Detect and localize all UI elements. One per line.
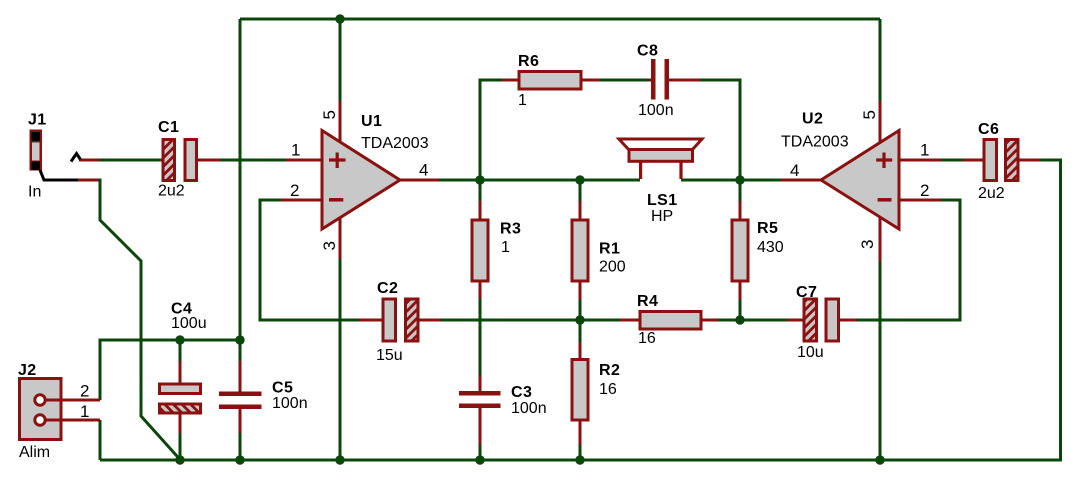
- wire red leads C5: [239, 361, 242, 433]
- speaker LS1: [619, 139, 702, 179]
- resistor R3: [472, 220, 488, 281]
- wire U1 pin5 drop green: [339, 19, 342, 101]
- svg-text:C3: C3: [511, 384, 532, 401]
- wire output rail left: [439, 179, 640, 182]
- wire ground rail: [100, 160, 1061, 460]
- svg-text:C5: C5: [272, 380, 293, 397]
- svg-text:C1: C1: [158, 119, 179, 136]
- svg-text:J2: J2: [18, 362, 37, 379]
- node junction ground C3: [475, 455, 484, 464]
- node junction output C8: [735, 175, 744, 184]
- wire red leads R3: [479, 201, 482, 299]
- wire C2 to R4 row: [441, 319, 620, 322]
- svg-text:3: 3: [858, 240, 877, 249]
- svg-text:TDA2003: TDA2003: [361, 135, 429, 152]
- wire red leads R4: [620, 319, 718, 322]
- svg-text:4: 4: [419, 161, 428, 180]
- wire red lead C1 left: [160, 159, 164, 162]
- svg-text:1: 1: [80, 402, 89, 421]
- node junction ground U2 pin3: [875, 455, 884, 464]
- wire top supply rail: [240, 18, 880, 21]
- svg-text:2u2: 2u2: [978, 185, 1005, 202]
- wire output rail right: [681, 179, 781, 182]
- wire R5 branch green: [739, 182, 742, 320]
- svg-text:100n: 100n: [511, 400, 547, 417]
- svg-text:200: 200: [599, 259, 626, 276]
- wire red leads C4: [179, 361, 182, 433]
- wire red U1 pin4 lead: [400, 179, 439, 182]
- wire C6 to U2 pin1 green: [941, 159, 963, 162]
- wire input ground path: [98, 180, 180, 460]
- svg-text:TDA2003: TDA2003: [781, 134, 849, 151]
- wire red leads R2: [579, 342, 582, 445]
- wire R2 branch green: [579, 320, 582, 460]
- node junction C5 rail: [235, 335, 244, 344]
- wire red pin lead J1 input: [79, 159, 99, 162]
- svg-text:1: 1: [518, 92, 527, 109]
- svg-text:16: 16: [599, 381, 617, 398]
- capacitor C4: [160, 384, 201, 413]
- svg-text:2: 2: [290, 181, 299, 200]
- wire red U1 pin5 lead: [339, 101, 342, 142]
- wire R4 to C7: [718, 319, 787, 322]
- node junction feedback R5: [735, 315, 744, 324]
- capacitor C2: [383, 299, 418, 341]
- wire red leads C6: [963, 159, 1040, 162]
- wire red lead J1 ground: [78, 179, 98, 182]
- svg-text:4: 4: [790, 161, 799, 180]
- resistor R4: [640, 312, 701, 330]
- node junction feedback R2: [575, 315, 584, 324]
- wire C1 to U1 pin1: [219, 159, 286, 162]
- wire red U1 pin2 lead: [281, 199, 322, 202]
- svg-text:R4: R4: [637, 293, 658, 310]
- wire C7 to U2 pin2: [857, 200, 960, 320]
- svg-text:100n: 100n: [638, 102, 674, 119]
- connector J2: [20, 379, 63, 440]
- wire left supply drop: [239, 19, 242, 361]
- svg-text:C7: C7: [796, 284, 817, 301]
- capacitor C5: [219, 392, 262, 410]
- svg-text:2: 2: [80, 382, 89, 401]
- svg-text:1: 1: [291, 141, 300, 160]
- node junction ground C4: [175, 455, 184, 464]
- svg-text:15u: 15u: [376, 347, 403, 364]
- node junction ground U1 pin3: [335, 455, 344, 464]
- svg-text:Alim: Alim: [19, 444, 50, 461]
- svg-text:10u: 10u: [797, 344, 824, 361]
- wire J2 pin1 to ground: [99, 420, 102, 460]
- svg-text:1: 1: [501, 239, 510, 256]
- capacitor C6: [984, 140, 1018, 181]
- wire red leads R6: [502, 79, 600, 82]
- op-amp U1: [322, 131, 400, 230]
- svg-text:100n: 100n: [272, 395, 308, 412]
- wire C5 lead green: [239, 433, 242, 460]
- svg-text:LS1: LS1: [647, 192, 678, 209]
- svg-text:5: 5: [320, 110, 339, 119]
- wire input to C1: [99, 159, 161, 162]
- wire red leads R5: [739, 201, 742, 300]
- wire red leads C3: [479, 376, 482, 445]
- wire J2 pin2 to rail: [100, 340, 240, 400]
- wire U2 pin5 drop green: [879, 19, 882, 101]
- svg-text:3: 3: [320, 241, 339, 250]
- svg-text:In: In: [28, 184, 41, 201]
- wire U2 pin3 green: [879, 262, 882, 460]
- resistor R5: [732, 220, 748, 281]
- wire U1 pin2 feedback: [260, 200, 359, 320]
- connector J1: [30, 130, 81, 181]
- svg-text:100u: 100u: [171, 315, 207, 332]
- wire red leads C7: [787, 319, 857, 322]
- wire red leads C8: [649, 79, 700, 82]
- svg-text:U2: U2: [802, 111, 823, 128]
- resistor R6: [519, 72, 581, 90]
- wire red U2 pin5 lead: [879, 101, 882, 143]
- node junction ground R2: [575, 455, 584, 464]
- svg-text:R5: R5: [757, 220, 778, 237]
- wire red leads J2: [61, 400, 100, 420]
- wire red U2 pin2 lead: [900, 199, 941, 202]
- svg-text:2: 2: [920, 181, 929, 200]
- wire C4 leads green: [179, 340, 182, 460]
- node junction C4 rail: [175, 335, 184, 344]
- svg-text:R6: R6: [518, 53, 539, 70]
- svg-text:U1: U1: [361, 113, 382, 130]
- wire R1 branch green: [579, 182, 582, 320]
- svg-text:5: 5: [860, 110, 879, 119]
- node junction output R6: [475, 175, 484, 184]
- node junction ground C5: [235, 455, 244, 464]
- wire red U2 pin1 lead: [900, 159, 941, 162]
- wire red leads R1: [579, 201, 582, 300]
- wire red lead C1 right to U1 pin1: [196, 159, 322, 162]
- wire R6 C8 branch: [480, 80, 740, 182]
- svg-text:HP: HP: [651, 208, 673, 225]
- svg-text:1: 1: [920, 141, 929, 160]
- resistor R2: [572, 360, 588, 421]
- op-amp U2: [821, 131, 899, 230]
- svg-text:16: 16: [638, 330, 656, 347]
- wire R3 branch green: [479, 182, 482, 460]
- capacitor C1: [163, 140, 197, 181]
- svg-text:R1: R1: [599, 241, 620, 258]
- node junction top rail U1: [335, 14, 344, 23]
- resistor R1: [572, 220, 588, 281]
- svg-text:C2: C2: [377, 280, 398, 297]
- wire red U2 pin3 lead: [879, 217, 882, 262]
- wire U1 pin3 green: [339, 259, 342, 460]
- svg-text:R2: R2: [599, 362, 620, 379]
- capacitor C8: [651, 59, 669, 100]
- svg-text:R3: R3: [500, 221, 521, 238]
- wire red leads C2: [359, 319, 441, 322]
- wire red U1 pin3 lead: [339, 217, 342, 259]
- svg-text:2u2: 2u2: [158, 183, 185, 200]
- svg-text:C6: C6: [978, 121, 999, 138]
- capacitor C7: [804, 299, 839, 341]
- node junction output R1: [575, 175, 584, 184]
- svg-text:430: 430: [757, 239, 784, 256]
- wire red U2 pin4 lead: [781, 179, 821, 182]
- capacitor C3: [459, 391, 501, 408]
- svg-text:J1: J1: [28, 112, 47, 129]
- svg-text:C8: C8: [637, 43, 658, 60]
